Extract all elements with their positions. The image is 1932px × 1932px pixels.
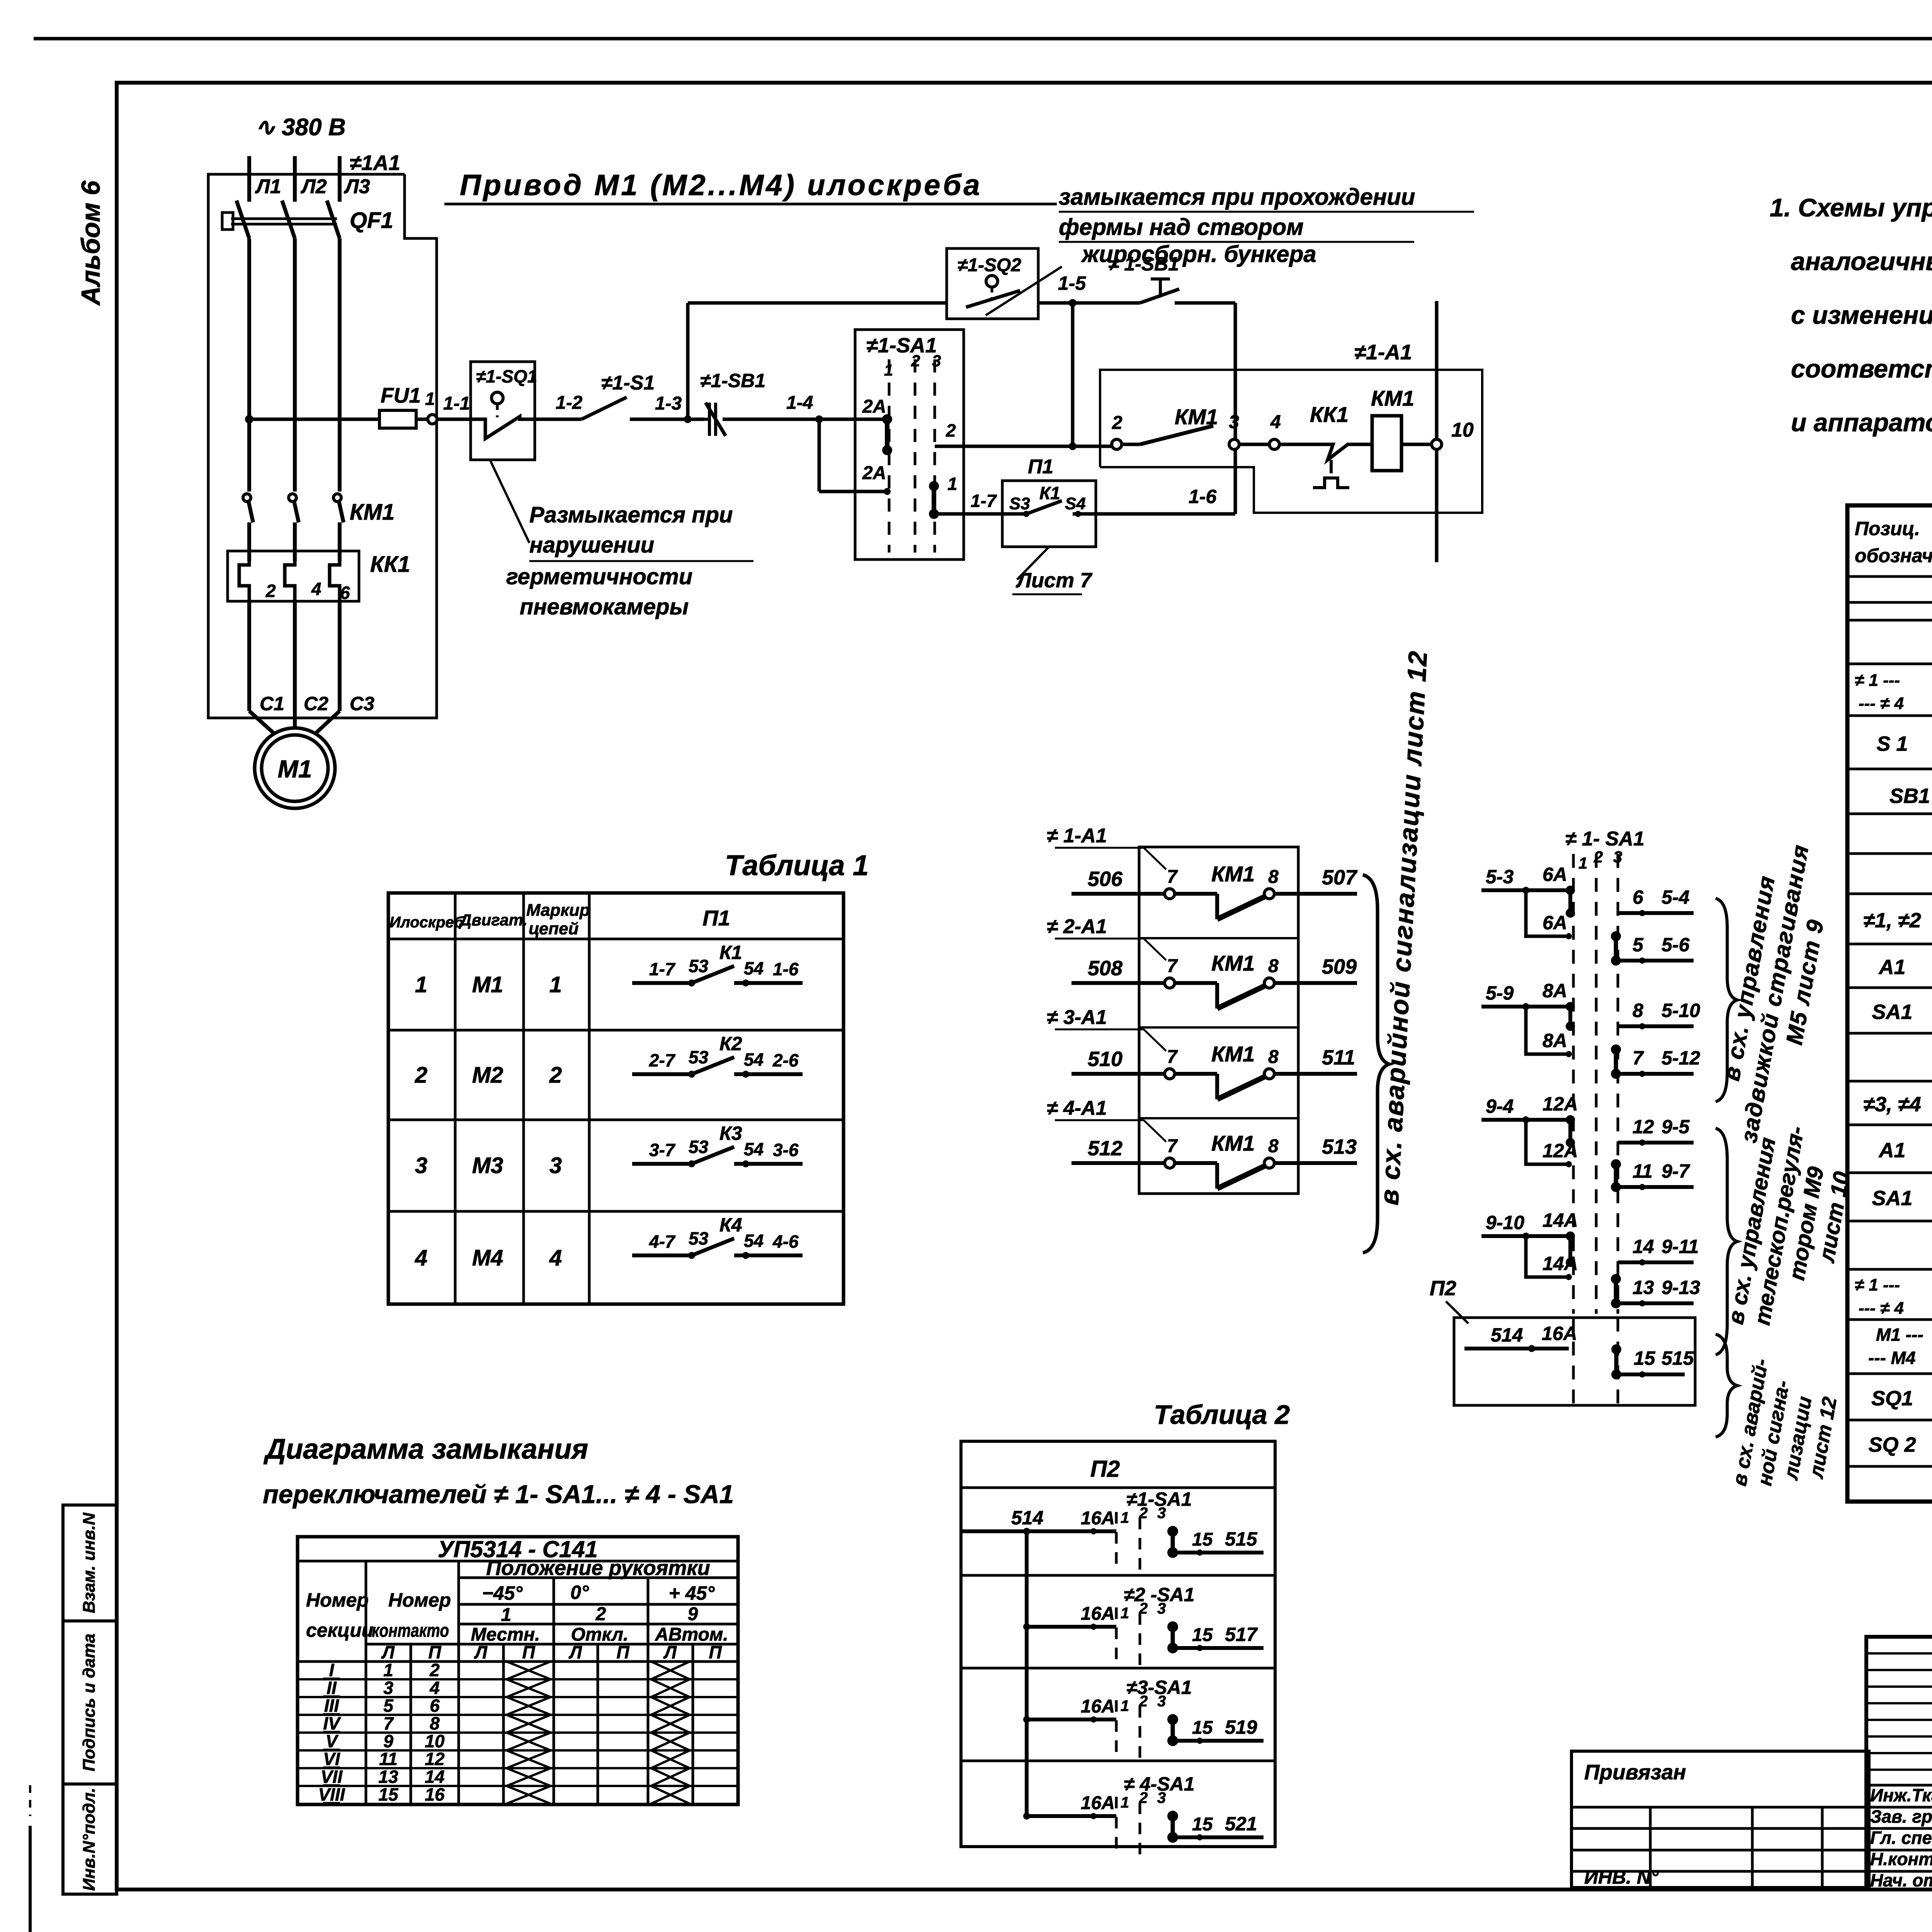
svg-text:П1: П1 — [1028, 456, 1053, 478]
svg-text:511: 511 — [1322, 1046, 1355, 1069]
svg-text:508: 508 — [1088, 957, 1122, 980]
svg-text:54: 54 — [744, 958, 764, 978]
svg-text:Привод М1 (М2...М4) илоскр: Привод М1 (М2...М4) илоскреба — [460, 169, 982, 202]
svg-text:КМ1: КМ1 — [1175, 405, 1218, 429]
svg-text:Привязан: Привязан — [1584, 1760, 1686, 1784]
svg-text:54: 54 — [744, 1231, 764, 1251]
svg-text:и аппаратов.: и аппаратов. — [1791, 408, 1932, 437]
svg-text:14А: 14А — [1543, 1209, 1578, 1231]
svg-text:7: 7 — [1167, 1136, 1178, 1156]
svg-text:3: 3 — [932, 352, 941, 370]
svg-text:512: 512 — [1088, 1137, 1122, 1160]
svg-text:Л: Л — [568, 1642, 582, 1662]
svg-text:515: 515 — [1662, 1347, 1694, 1369]
svg-text:Диаграмма замыкания: Диаграмма замыкания — [263, 1434, 588, 1465]
svg-text:КМ1: КМ1 — [1211, 862, 1255, 886]
svg-text:Зав. гр.: Зав. гр. — [1870, 1806, 1932, 1827]
svg-text:2: 2 — [549, 1063, 562, 1088]
svg-text:М3: М3 — [472, 1153, 503, 1178]
svg-text:15: 15 — [1634, 1347, 1656, 1369]
svg-text:14: 14 — [1633, 1236, 1654, 1257]
svg-text:Инж.Ткач: Инж.Ткач — [1870, 1785, 1932, 1805]
svg-text:−45°: −45° — [482, 1582, 523, 1604]
svg-text:5: 5 — [1633, 934, 1644, 956]
svg-text:54: 54 — [744, 1139, 764, 1159]
svg-text:16А: 16А — [1081, 1604, 1115, 1624]
svg-text:≠1-SQ2: ≠1-SQ2 — [957, 255, 1021, 276]
svg-text:≠1, ≠2: ≠1, ≠2 — [1863, 909, 1921, 932]
svg-text:1: 1 — [884, 361, 893, 379]
svg-text:С2: С2 — [304, 693, 328, 714]
svg-text:Л: Л — [381, 1642, 395, 1662]
svg-text:53: 53 — [689, 956, 709, 976]
svg-text:--- М4: --- М4 — [1868, 1348, 1916, 1368]
svg-text:контакто: контакто — [372, 1621, 449, 1641]
svg-text:КК1: КК1 — [1310, 402, 1349, 427]
svg-text:11: 11 — [379, 1749, 398, 1769]
svg-text:1: 1 — [1578, 854, 1587, 872]
svg-text:9: 9 — [688, 1604, 698, 1624]
svg-text:3: 3 — [1157, 1693, 1166, 1710]
svg-text:К1: К1 — [1039, 483, 1060, 503]
svg-text:3: 3 — [383, 1678, 393, 1698]
svg-text:∿ 380 В: ∿ 380 В — [255, 114, 346, 141]
svg-text:4-6: 4-6 — [772, 1231, 799, 1252]
svg-text:7: 7 — [383, 1713, 394, 1733]
svg-text:517: 517 — [1225, 1624, 1258, 1645]
svg-text:S 1: S 1 — [1876, 732, 1908, 755]
svg-text:3: 3 — [1229, 412, 1239, 432]
svg-text:Лист 7: Лист 7 — [1015, 569, 1093, 592]
svg-text:54: 54 — [744, 1049, 764, 1070]
svg-text:П: П — [709, 1642, 722, 1662]
svg-text:ИНВ. N°: ИНВ. N° — [1584, 1866, 1659, 1888]
svg-text:3: 3 — [1157, 1505, 1166, 1522]
svg-text:1-5: 1-5 — [1058, 272, 1086, 294]
svg-text:9-11: 9-11 — [1662, 1236, 1699, 1257]
svg-text:жиросборн. бункера: жиросборн. бункера — [1081, 241, 1316, 267]
svg-text:Инв.N°подл.: Инв.N°подл. — [80, 1788, 99, 1891]
svg-text:Размыкается при: Размыкается при — [529, 502, 733, 527]
svg-text:507: 507 — [1322, 866, 1358, 889]
svg-text:Л: Л — [474, 1642, 488, 1662]
svg-text:9-13: 9-13 — [1662, 1277, 1700, 1298]
svg-text:4-7: 4-7 — [649, 1231, 676, 1252]
svg-text:Позиц.: Позиц. — [1855, 518, 1920, 539]
svg-text:К1: К1 — [719, 942, 742, 963]
svg-text:Л3: Л3 — [344, 175, 370, 198]
svg-text:4: 4 — [311, 579, 321, 599]
svg-text:≠ 1 ---: ≠ 1 --- — [1855, 671, 1900, 690]
svg-text:15: 15 — [1192, 1529, 1213, 1550]
svg-text:С1: С1 — [260, 693, 284, 714]
svg-text:8А: 8А — [1543, 1030, 1567, 1051]
svg-text:SА1: SА1 — [1872, 1187, 1912, 1210]
svg-text:2: 2 — [1112, 413, 1122, 433]
svg-text:7: 7 — [1167, 867, 1178, 887]
svg-text:14: 14 — [425, 1767, 444, 1787]
svg-text:1-6: 1-6 — [1189, 486, 1217, 507]
svg-text:П: П — [616, 1642, 629, 1662]
svg-text:12: 12 — [425, 1749, 445, 1769]
svg-text:2: 2 — [265, 581, 276, 601]
svg-text:5-10: 5-10 — [1662, 1000, 1700, 1021]
svg-text:III: III — [324, 1696, 340, 1716]
svg-text:I: I — [329, 1660, 335, 1680]
svg-text:5-3: 5-3 — [1486, 866, 1514, 888]
svg-text:Гл. спец.: Гл. спец. — [1870, 1828, 1932, 1848]
svg-text:П: П — [428, 1642, 441, 1662]
svg-text:1-7: 1-7 — [649, 959, 676, 979]
svg-text:2: 2 — [415, 1063, 427, 1088]
svg-text:Л2: Л2 — [300, 175, 327, 198]
svg-text:1. Схемы управления приво: 1. Схемы управления приводами М2 ... М4 — [1770, 193, 1932, 222]
svg-text:8: 8 — [1268, 1047, 1279, 1067]
svg-text:2: 2 — [946, 420, 956, 440]
svg-text:515: 515 — [1225, 1528, 1258, 1550]
svg-text:переключателей ≠ 1- SА1... ≠: переключателей ≠ 1- SА1... ≠ 4 - SА1 — [263, 1480, 734, 1509]
svg-text:1-3: 1-3 — [655, 393, 682, 414]
svg-text:9-4: 9-4 — [1486, 1095, 1514, 1117]
svg-text:≠ 2-А1: ≠ 2-А1 — [1047, 915, 1107, 938]
svg-text:3: 3 — [1613, 848, 1622, 866]
svg-text:П2: П2 — [1430, 1277, 1456, 1300]
svg-text:2-7: 2-7 — [649, 1050, 676, 1070]
svg-text:2: 2 — [1139, 1505, 1148, 1522]
svg-text:514: 514 — [1011, 1507, 1043, 1529]
svg-text:16: 16 — [425, 1784, 445, 1804]
svg-text:≠1-SА1: ≠1-SА1 — [866, 334, 937, 357]
svg-text:8: 8 — [1268, 956, 1279, 976]
svg-text:12: 12 — [1633, 1116, 1654, 1138]
svg-text:S3: S3 — [1009, 494, 1030, 513]
svg-text:А1: А1 — [1878, 956, 1905, 979]
svg-text:6А: 6А — [1543, 864, 1567, 885]
svg-text:пневмокамеры: пневмокамеры — [520, 594, 689, 619]
svg-text:VIII: VIII — [318, 1784, 345, 1804]
svg-text:К3: К3 — [719, 1122, 742, 1144]
svg-text:П1: П1 — [702, 906, 730, 930]
svg-text:≠1-SВ1: ≠1-SВ1 — [700, 370, 765, 391]
svg-text:3: 3 — [415, 1153, 427, 1178]
svg-text:2: 2 — [911, 352, 920, 370]
svg-text:7: 7 — [1167, 956, 1178, 976]
svg-text:16А: 16А — [1081, 1793, 1115, 1813]
svg-text:521: 521 — [1225, 1813, 1257, 1835]
svg-text:11: 11 — [1633, 1160, 1653, 1182]
svg-text:1: 1 — [1121, 1794, 1129, 1811]
svg-text:3: 3 — [549, 1153, 562, 1178]
svg-text:Двигат.: Двигат. — [459, 911, 527, 929]
svg-text:2: 2 — [1139, 1600, 1148, 1617]
svg-text:КМ1: КМ1 — [350, 500, 395, 525]
svg-text:513: 513 — [1322, 1135, 1357, 1158]
svg-text:Номер: Номер — [388, 1589, 451, 1611]
svg-text:≠ 1-А1: ≠ 1-А1 — [1047, 825, 1107, 847]
svg-text:1-7: 1-7 — [971, 491, 997, 511]
svg-text:Л: Л — [663, 1642, 677, 1662]
svg-text:--- ≠ 4: --- ≠ 4 — [1859, 1299, 1904, 1318]
svg-text:КМ1: КМ1 — [1211, 1131, 1255, 1155]
svg-text:≠ 1- SА1: ≠ 1- SА1 — [1565, 828, 1645, 850]
svg-text:5-6: 5-6 — [1662, 934, 1690, 956]
svg-text:8: 8 — [1633, 1000, 1643, 1021]
svg-text:4: 4 — [429, 1678, 440, 1698]
svg-text:10: 10 — [425, 1731, 445, 1751]
svg-text:Взам. инв.N: Взам. инв.N — [80, 1512, 99, 1613]
svg-text:цепей: цепей — [529, 919, 579, 938]
svg-text:2: 2 — [595, 1604, 606, 1624]
svg-text:1-6: 1-6 — [773, 959, 799, 979]
svg-text:М1: М1 — [278, 755, 312, 783]
svg-text:15: 15 — [1192, 1814, 1213, 1835]
svg-text:53: 53 — [689, 1047, 709, 1067]
svg-text:SQ1: SQ1 — [1871, 1387, 1913, 1410]
svg-text:1-1: 1-1 — [443, 393, 470, 414]
svg-text:≠ 4-А1: ≠ 4-А1 — [1047, 1097, 1107, 1119]
svg-text:обознач.: обознач. — [1855, 545, 1932, 566]
svg-text:Положение рукоятки: Положение рукоятки — [486, 1556, 710, 1580]
svg-text:0°: 0° — [570, 1582, 589, 1603]
svg-text:8: 8 — [1268, 1136, 1279, 1156]
svg-text:Нач. отд.: Нач. отд. — [1870, 1870, 1932, 1890]
svg-text:6: 6 — [1633, 886, 1644, 908]
svg-text:7: 7 — [1167, 1047, 1178, 1067]
svg-text:герметичности: герметичности — [506, 564, 692, 589]
svg-text:3-6: 3-6 — [773, 1140, 799, 1160]
svg-text:509: 509 — [1322, 955, 1357, 978]
svg-text:аналогичны схеме управлени: аналогичны схеме управления приводом М1 — [1791, 247, 1932, 276]
svg-text:Л1: Л1 — [255, 175, 281, 198]
svg-text:8: 8 — [430, 1713, 440, 1733]
svg-text:М2: М2 — [472, 1063, 503, 1088]
svg-text:S4: S4 — [1065, 494, 1086, 513]
svg-text:с изменениями согласно та: с изменениями согласно таблицам 1,2 и — [1791, 301, 1932, 329]
svg-text:≠1-А1: ≠1-А1 — [1354, 340, 1412, 364]
svg-text:+ 45°: + 45° — [669, 1582, 715, 1604]
svg-text:КМ1: КМ1 — [1371, 386, 1414, 410]
svg-text:М1: М1 — [472, 972, 503, 997]
svg-text:2: 2 — [1139, 1789, 1148, 1806]
svg-text:Н.контр: Н.контр — [1870, 1849, 1932, 1869]
svg-text:≠3, ≠4: ≠3, ≠4 — [1863, 1093, 1921, 1116]
svg-text:нарушении: нарушении — [529, 532, 654, 558]
svg-text:Подпись и дата: Подпись и дата — [80, 1634, 99, 1772]
svg-text:≠1-SQ1: ≠1-SQ1 — [476, 366, 537, 386]
svg-text:2: 2 — [1139, 1693, 1148, 1710]
svg-text:9-5: 9-5 — [1662, 1116, 1690, 1138]
svg-text:9: 9 — [383, 1731, 393, 1751]
svg-text:II: II — [327, 1678, 337, 1698]
svg-text:Номер: Номер — [306, 1589, 369, 1611]
svg-text:КК1: КК1 — [370, 552, 410, 577]
svg-text:1: 1 — [947, 474, 957, 494]
svg-text:фермы над створом: фермы над створом — [1059, 214, 1304, 240]
svg-text:6: 6 — [430, 1696, 440, 1716]
svg-text:16А: 16А — [1081, 1508, 1115, 1529]
svg-text:2А: 2А — [862, 463, 886, 483]
svg-text:4: 4 — [1270, 412, 1281, 432]
svg-text:≠ 3-А1: ≠ 3-А1 — [1047, 1006, 1107, 1029]
svg-text:2-6: 2-6 — [772, 1050, 799, 1070]
svg-text:10: 10 — [1451, 419, 1474, 441]
svg-text:1: 1 — [1121, 1509, 1129, 1526]
svg-text:VI: VI — [323, 1749, 340, 1769]
svg-text:7: 7 — [1633, 1047, 1644, 1069]
svg-text:3-7: 3-7 — [649, 1140, 676, 1160]
svg-text:1-4: 1-4 — [786, 393, 813, 413]
svg-text:соответствующей заменой ин: соответствующей заменой индексов цепей — [1791, 354, 1932, 383]
svg-text:1-2: 1-2 — [556, 393, 583, 413]
svg-text:≠ 1 ---: ≠ 1 --- — [1855, 1276, 1900, 1294]
svg-text:53: 53 — [689, 1228, 709, 1248]
svg-text:16А: 16А — [1542, 1323, 1577, 1344]
svg-text:5-9: 5-9 — [1486, 982, 1514, 1004]
svg-text:SВ1: SВ1 — [1889, 784, 1930, 808]
svg-text:15: 15 — [1192, 1718, 1213, 1738]
svg-text:П: П — [522, 1642, 535, 1662]
svg-text:1: 1 — [1121, 1605, 1129, 1622]
svg-text:510: 510 — [1088, 1048, 1122, 1071]
svg-text:506: 506 — [1088, 867, 1123, 891]
svg-text:5-4: 5-4 — [1662, 886, 1689, 908]
svg-text:QF1: QF1 — [350, 208, 393, 233]
svg-text:9-7: 9-7 — [1662, 1160, 1690, 1182]
svg-text:≠1А1: ≠1А1 — [350, 151, 400, 175]
svg-text:514: 514 — [1491, 1324, 1523, 1346]
svg-text:2А: 2А — [862, 396, 886, 417]
svg-text:--- ≠ 4: --- ≠ 4 — [1859, 694, 1904, 713]
svg-text:16А: 16А — [1081, 1696, 1115, 1717]
svg-text:5: 5 — [383, 1696, 394, 1716]
svg-text:12А: 12А — [1543, 1093, 1578, 1115]
svg-text:VII: VII — [321, 1767, 343, 1787]
svg-text:КМ1: КМ1 — [1211, 951, 1255, 975]
svg-text:V: V — [326, 1731, 339, 1751]
svg-text:6А: 6А — [1543, 912, 1567, 934]
svg-text:IV: IV — [323, 1713, 341, 1733]
svg-text:8А: 8А — [1543, 980, 1567, 1002]
svg-text:SQ 2: SQ 2 — [1868, 1433, 1916, 1456]
svg-text:1: 1 — [501, 1605, 512, 1625]
svg-text:1: 1 — [1121, 1697, 1129, 1714]
svg-text:1: 1 — [383, 1660, 393, 1680]
svg-text:1: 1 — [425, 389, 435, 409]
svg-text:2: 2 — [429, 1660, 440, 1680]
svg-text:КМ1: КМ1 — [1211, 1042, 1255, 1066]
svg-text:3: 3 — [1157, 1789, 1166, 1806]
svg-text:П2: П2 — [1090, 1456, 1120, 1482]
svg-text:4: 4 — [415, 1245, 427, 1270]
svg-text:13: 13 — [1633, 1277, 1654, 1298]
svg-text:замыкается при прохождении: замыкается при прохождении — [1059, 184, 1415, 210]
svg-text:13: 13 — [378, 1767, 398, 1787]
svg-text:519: 519 — [1225, 1716, 1257, 1738]
svg-text:К2: К2 — [719, 1033, 742, 1054]
svg-text:А1: А1 — [1878, 1139, 1905, 1162]
svg-text:3: 3 — [1157, 1600, 1166, 1617]
svg-text:9-10: 9-10 — [1486, 1212, 1524, 1233]
svg-text:4: 4 — [549, 1245, 562, 1270]
svg-text:Таблица 2: Таблица 2 — [1154, 1400, 1290, 1430]
svg-text:15: 15 — [1192, 1625, 1213, 1645]
svg-text:М1 ---: М1 --- — [1876, 1325, 1923, 1345]
svg-text:≠1-S1: ≠1-S1 — [601, 372, 655, 394]
svg-text:53: 53 — [689, 1137, 709, 1157]
svg-text:С3: С3 — [350, 693, 374, 714]
svg-text:6: 6 — [340, 583, 350, 603]
svg-text:Таблица 1: Таблица 1 — [725, 849, 869, 881]
svg-text:М4: М4 — [472, 1245, 503, 1270]
svg-text:1: 1 — [415, 972, 427, 997]
svg-text:FU1: FU1 — [381, 383, 421, 407]
svg-text:1: 1 — [549, 972, 562, 997]
svg-text:SА1: SА1 — [1872, 1000, 1912, 1024]
svg-text:Альбом 6: Альбом 6 — [76, 180, 105, 306]
svg-text:2: 2 — [1594, 848, 1603, 866]
svg-text:секции: секции — [306, 1619, 373, 1641]
svg-text:К4: К4 — [719, 1214, 742, 1236]
svg-text:8: 8 — [1268, 867, 1279, 887]
svg-text:15: 15 — [378, 1784, 399, 1804]
svg-text:Маркир: Маркир — [526, 901, 590, 920]
svg-text:Илоскреб: Илоскреб — [389, 914, 464, 931]
svg-text:5-12: 5-12 — [1662, 1047, 1700, 1069]
